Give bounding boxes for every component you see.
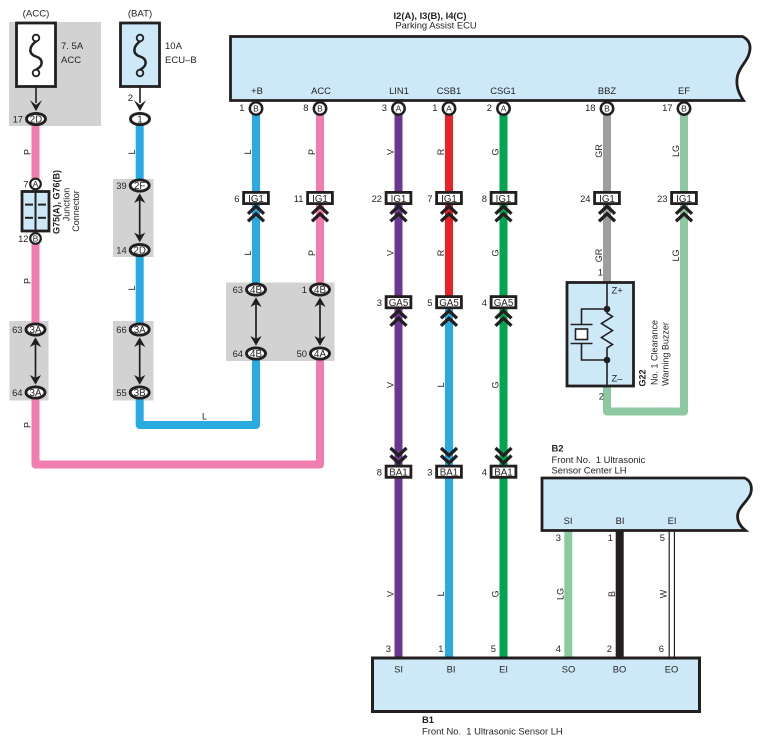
svg-text:63: 63 bbox=[233, 284, 243, 295]
svg-text:IG1: IG1 bbox=[312, 194, 328, 205]
svg-text:L: L bbox=[243, 149, 253, 154]
svg-text:3A: 3A bbox=[134, 325, 146, 336]
wire light-green LG from sensor B2 pin SI 3 to sensor B1 pin SO 4 bbox=[564, 531, 572, 658]
svg-text:BA1: BA1 bbox=[440, 468, 459, 479]
svg-text:B: B bbox=[253, 104, 259, 114]
sensor B2 box bbox=[542, 478, 751, 531]
svg-text:2D: 2D bbox=[30, 115, 43, 126]
connector IG1 pin 7 bbox=[427, 192, 461, 205]
ECU pin circle 17(B) EF bbox=[662, 102, 690, 115]
connector BA1 pin 8 bbox=[391, 448, 407, 463]
svg-text:P: P bbox=[307, 250, 317, 256]
svg-text:GA5: GA5 bbox=[389, 298, 409, 309]
svg-text:(ACC): (ACC) bbox=[23, 9, 50, 20]
svg-text:IG1: IG1 bbox=[676, 194, 692, 205]
wire blue L from connector GA5(5) down to sensor B1 pin BI 1 bbox=[445, 302, 453, 658]
gray background behind ACC fuse bbox=[9, 22, 101, 126]
svg-text:IG1: IG1 bbox=[441, 194, 457, 205]
svg-text:B: B bbox=[604, 104, 610, 114]
svg-text:V: V bbox=[386, 149, 396, 155]
svg-text:EI: EI bbox=[668, 515, 677, 526]
svg-text:1: 1 bbox=[137, 115, 142, 126]
wire pink P segments over gray boxes bbox=[32, 321, 40, 330]
connector IG1 pin 23 bbox=[657, 192, 696, 205]
svg-text:4: 4 bbox=[556, 643, 561, 654]
svg-text:2D: 2D bbox=[133, 246, 146, 257]
connector oval 2D pin 17 bbox=[13, 113, 46, 125]
svg-text:4B: 4B bbox=[250, 349, 262, 360]
svg-text:2: 2 bbox=[487, 102, 492, 113]
svg-text:EI: EI bbox=[499, 664, 508, 675]
svg-text:BI: BI bbox=[447, 664, 456, 675]
svg-text:Front No. 1 Ultrasonic: Front No. 1 Ultrasonic bbox=[552, 454, 646, 465]
svg-text:3A: 3A bbox=[30, 388, 42, 399]
svg-text:L: L bbox=[127, 149, 137, 154]
svg-text:50: 50 bbox=[297, 348, 307, 359]
wire black B from sensor B2 pin BI 1 to sensor B1 pin BO 2 bbox=[616, 531, 624, 658]
svg-text:22: 22 bbox=[372, 193, 382, 204]
svg-text:3B: 3B bbox=[134, 388, 146, 399]
svg-text:A: A bbox=[33, 179, 39, 189]
svg-text:14: 14 bbox=[116, 244, 126, 255]
svg-text:G: G bbox=[491, 249, 501, 256]
connector ovals 3A(66)/3B(55) with arrow (blue) bbox=[134, 337, 145, 384]
connector IG1 pin 8 bbox=[482, 192, 516, 205]
svg-text:P: P bbox=[23, 422, 33, 428]
svg-text:17: 17 bbox=[13, 113, 23, 124]
svg-text:1: 1 bbox=[608, 532, 613, 543]
svg-text:Z–: Z– bbox=[612, 374, 624, 385]
svg-text:BA1: BA1 bbox=[494, 468, 513, 479]
svg-text:3A: 3A bbox=[30, 325, 42, 336]
svg-text:BA1: BA1 bbox=[389, 468, 408, 479]
svg-text:P: P bbox=[23, 149, 33, 155]
svg-text:L: L bbox=[202, 412, 207, 422]
wire violet V from ECU pin LIN1 3(A) down to sensor B1 pin SI 3 bbox=[395, 110, 403, 658]
wire blue L from connector 4B(63) up to ECU pin +B 1(B) bbox=[252, 110, 260, 290]
svg-text:3: 3 bbox=[427, 467, 432, 478]
svg-text:66: 66 bbox=[116, 324, 126, 335]
ECU pin circle 1(A) CSB1 bbox=[432, 102, 455, 115]
ECU pin circle 2(A) CSG1 bbox=[487, 102, 510, 115]
svg-text:Parking Assist ECU: Parking Assist ECU bbox=[395, 20, 477, 31]
svg-text:7. 5A: 7. 5A bbox=[61, 41, 84, 52]
svg-text:CSG1: CSG1 bbox=[490, 85, 516, 96]
svg-text:G: G bbox=[491, 381, 501, 388]
svg-text:6: 6 bbox=[234, 193, 239, 204]
svg-text:P: P bbox=[307, 149, 317, 155]
svg-text:A: A bbox=[446, 104, 452, 114]
svg-text:GA5: GA5 bbox=[494, 298, 514, 309]
svg-text:11: 11 bbox=[294, 193, 304, 204]
Parking Assist ECU box I2(A), I3(B), I4(C) bbox=[231, 37, 751, 101]
connector ovals 4B(63)/4B(64) with arrow (blue) bbox=[250, 297, 261, 345]
connector IG1 pin 6 bbox=[234, 192, 268, 205]
svg-text:SI: SI bbox=[564, 515, 573, 526]
wire pink P from connector 4B(1) up to ECU pin ACC 8(B) bbox=[316, 110, 324, 290]
svg-text:1: 1 bbox=[598, 267, 603, 278]
svg-text:GR: GR bbox=[594, 144, 604, 158]
svg-text:4B: 4B bbox=[314, 285, 326, 296]
svg-text:R: R bbox=[436, 148, 446, 155]
svg-text:3: 3 bbox=[382, 102, 387, 113]
svg-text:R: R bbox=[436, 249, 446, 256]
svg-text:24: 24 bbox=[580, 193, 590, 204]
svg-text:8: 8 bbox=[482, 193, 487, 204]
svg-text:1: 1 bbox=[302, 284, 307, 295]
svg-text:BO: BO bbox=[613, 664, 627, 675]
svg-text:BBZ: BBZ bbox=[598, 85, 617, 96]
svg-text:G: G bbox=[491, 590, 501, 597]
svg-text:ACC: ACC bbox=[311, 85, 331, 96]
svg-text:64: 64 bbox=[12, 387, 22, 398]
gray connector box 3A/3B (blue) bbox=[113, 321, 154, 401]
svg-text:LIN1: LIN1 bbox=[389, 85, 409, 96]
svg-text:17: 17 bbox=[662, 102, 672, 113]
wire light-green LG from ECU pin EF 17(B) down, left and up to buzzer G22 pin 2 bbox=[607, 110, 684, 412]
svg-text:39: 39 bbox=[116, 180, 126, 191]
wire pink P from junction connector B to connector 3A(63) bbox=[32, 238, 40, 330]
svg-text:6: 6 bbox=[659, 643, 664, 654]
svg-text:1: 1 bbox=[438, 643, 443, 654]
svg-text:5: 5 bbox=[427, 297, 432, 308]
svg-text:CSB1: CSB1 bbox=[437, 85, 462, 96]
svg-text:4: 4 bbox=[482, 297, 487, 308]
svg-text:B1: B1 bbox=[422, 714, 434, 725]
svg-text:10A: 10A bbox=[165, 41, 183, 52]
svg-text:Front No. 1 Ultrasonic Sensor: Front No. 1 Ultrasonic Sensor LH bbox=[422, 726, 563, 737]
ECU pin circle 18(B) BBZ bbox=[585, 102, 613, 115]
svg-text:G: G bbox=[491, 148, 501, 155]
wire blue L from connector 3B(55) right and up to connector 4B(64) bbox=[140, 354, 256, 425]
svg-text:W: W bbox=[659, 589, 669, 598]
svg-text:G75(A), G76(B): G75(A), G76(B) bbox=[52, 170, 62, 234]
svg-text:7: 7 bbox=[23, 179, 28, 190]
svg-text:2: 2 bbox=[599, 391, 604, 402]
connector ovals 3A(63)/3A(64) with arrow (pink) bbox=[30, 337, 41, 384]
connector GA5 pin 3 bbox=[377, 297, 411, 310]
svg-text:Warning Buzzer: Warning Buzzer bbox=[661, 322, 671, 386]
connector BA1 pin 4 bbox=[496, 448, 512, 463]
svg-text:LG: LG bbox=[671, 249, 681, 261]
svg-text:G22: G22 bbox=[638, 369, 648, 386]
connector GA5 pin 4 bbox=[482, 297, 516, 310]
svg-text:4: 4 bbox=[482, 467, 487, 478]
svg-text:IG1: IG1 bbox=[391, 194, 407, 205]
wire pink P from connector 3A(64) right and up to connector 4A(50) bbox=[36, 354, 321, 465]
svg-text:LG: LG bbox=[556, 588, 566, 600]
svg-text:Junction: Junction bbox=[61, 188, 71, 222]
svg-text:2F: 2F bbox=[134, 181, 145, 192]
gray connector box 3A/3A (pink) bbox=[10, 321, 49, 401]
svg-text:3: 3 bbox=[386, 643, 391, 654]
svg-text:2: 2 bbox=[128, 92, 133, 103]
svg-text:B: B bbox=[681, 104, 687, 114]
wire red R from ECU pin CSB1 1(A) down to connector GA5(5) bbox=[445, 110, 453, 302]
buzzer internal circuit bbox=[571, 283, 613, 387]
svg-text:GR: GR bbox=[594, 248, 604, 262]
connector ovals 2F(39)/2D(14) with arrow (blue) bbox=[134, 193, 145, 242]
junction connector circle B pin 12 bbox=[30, 233, 41, 244]
wire gray GR from ECU pin BBZ 18(B) down to buzzer G22 pin 1 bbox=[603, 110, 611, 284]
svg-text:Connector: Connector bbox=[71, 190, 81, 232]
svg-text:55: 55 bbox=[116, 387, 126, 398]
svg-text:IG1: IG1 bbox=[248, 194, 264, 205]
svg-text:1: 1 bbox=[432, 102, 437, 113]
connector GA5 pin 5 bbox=[427, 297, 461, 310]
svg-text:5: 5 bbox=[660, 532, 665, 543]
svg-text:8: 8 bbox=[377, 467, 382, 478]
gray connector box 4B/4B/4B/4A (blue+pink) bbox=[226, 283, 335, 362]
svg-text:A: A bbox=[396, 104, 402, 114]
svg-text:12: 12 bbox=[18, 233, 28, 244]
svg-text:3: 3 bbox=[556, 532, 561, 543]
svg-text:V: V bbox=[386, 250, 396, 256]
svg-text:3: 3 bbox=[377, 297, 382, 308]
svg-text:EO: EO bbox=[665, 664, 679, 675]
sensor B1 box bbox=[373, 658, 700, 712]
svg-text:B: B bbox=[607, 591, 617, 597]
fuse 10A ECU-B bbox=[121, 23, 160, 87]
svg-text:L: L bbox=[436, 591, 446, 596]
fuse 7.5A ACC bbox=[17, 23, 56, 87]
svg-text:P: P bbox=[23, 278, 33, 284]
ECU pin circle 8(B) ACC bbox=[303, 102, 326, 115]
ECU pin circle 3(A) LIN1 bbox=[382, 102, 405, 115]
svg-text:+B: +B bbox=[251, 85, 263, 96]
connector IG1 pin 22 bbox=[372, 192, 411, 205]
junction connector circle A pin 7 bbox=[30, 179, 41, 190]
svg-text:ACC: ACC bbox=[61, 55, 81, 66]
svg-text:LG: LG bbox=[671, 145, 681, 157]
svg-text:5: 5 bbox=[491, 643, 496, 654]
svg-text:B: B bbox=[33, 234, 39, 244]
svg-text:7: 7 bbox=[427, 193, 432, 204]
wire blue L from connector 2D(14) to connector 3A(66) bbox=[136, 250, 144, 330]
svg-text:23: 23 bbox=[657, 193, 667, 204]
svg-text:EF: EF bbox=[678, 85, 690, 96]
wire white W from sensor B2 pin EI 5 to sensor B1 pin EO 6 bbox=[669, 531, 674, 658]
wire blue L segments over gray boxes bbox=[136, 179, 144, 186]
svg-text:1: 1 bbox=[239, 102, 244, 113]
svg-text:L: L bbox=[436, 382, 446, 387]
svg-text:63: 63 bbox=[12, 324, 22, 335]
connector IG1 pin 11 bbox=[294, 192, 333, 205]
wire pink P from ACC fuse 2D to junction connector A bbox=[32, 122, 40, 184]
svg-text:V: V bbox=[386, 382, 396, 388]
svg-text:Z+: Z+ bbox=[612, 286, 624, 297]
ECU pin circle 1(B) +B bbox=[239, 102, 262, 115]
svg-text:B: B bbox=[317, 104, 323, 114]
svg-text:Sensor Center LH: Sensor Center LH bbox=[552, 465, 627, 476]
gray connector box 2F/2D (blue) bbox=[113, 179, 154, 257]
svg-text:IG1: IG1 bbox=[599, 194, 615, 205]
svg-text:GA5: GA5 bbox=[439, 298, 459, 309]
connector ovals 4B(1)/4A(50) with arrow (pink) bbox=[314, 297, 325, 345]
svg-text:SI: SI bbox=[394, 664, 403, 675]
svg-text:BI: BI bbox=[616, 515, 625, 526]
svg-text:B2: B2 bbox=[552, 443, 564, 454]
svg-text:4B: 4B bbox=[250, 285, 262, 296]
svg-text:64: 64 bbox=[233, 348, 243, 359]
svg-text:L: L bbox=[243, 250, 253, 255]
wire from ACC fuse to connector 2D bbox=[35, 87, 37, 104]
arrow into connector 1 bbox=[134, 100, 146, 111]
svg-text:A: A bbox=[501, 104, 507, 114]
wire blue L from BAT fuse 1 to connector 2F(39) bbox=[136, 122, 144, 186]
junction connector G75(A),G76(B) grid bbox=[22, 192, 49, 232]
svg-text:(BAT): (BAT) bbox=[128, 9, 152, 20]
svg-text:2: 2 bbox=[607, 643, 612, 654]
svg-text:IG1: IG1 bbox=[496, 194, 512, 205]
connector BA1 pin 3 bbox=[441, 448, 457, 463]
svg-text:L: L bbox=[127, 285, 137, 290]
svg-text:V: V bbox=[386, 591, 396, 597]
connector oval 1 bbox=[131, 113, 150, 125]
buzzer G22 box bbox=[567, 283, 634, 387]
svg-text:4A: 4A bbox=[314, 349, 326, 360]
wire from BAT fuse to connector 1 bbox=[139, 87, 141, 104]
wire green G from ECU pin CSG1 2(A) down to sensor B1 pin EI 5 bbox=[500, 110, 508, 658]
connector IG1 pin 24 bbox=[580, 192, 619, 205]
svg-text:8: 8 bbox=[303, 102, 308, 113]
svg-text:18: 18 bbox=[585, 102, 595, 113]
svg-text:SO: SO bbox=[562, 664, 576, 675]
svg-text:No. 1 Clearance: No. 1 Clearance bbox=[649, 320, 659, 385]
arrow into connector 2D bbox=[30, 100, 42, 111]
svg-text:ECU–B: ECU–B bbox=[165, 55, 197, 66]
